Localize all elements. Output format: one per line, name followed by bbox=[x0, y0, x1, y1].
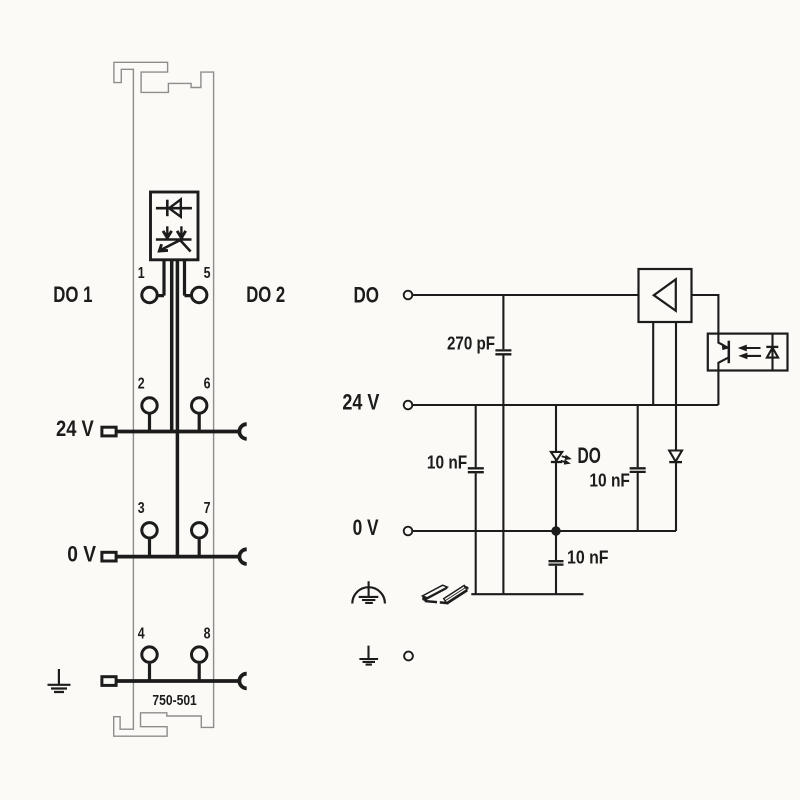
diode D-led1 cathode bar bbox=[166, 200, 169, 217]
LED DO branch bbox=[555, 405, 557, 531]
terminal DO bbox=[404, 291, 413, 300]
svg-text:10 nF: 10 nF bbox=[589, 471, 630, 491]
LED D1 emission arrows bbox=[562, 456, 569, 458]
diode D3 branch bbox=[675, 405, 677, 531]
svg-text:24 V: 24 V bbox=[56, 416, 94, 441]
pin 5 bbox=[192, 287, 207, 302]
capacitor C4 10nF branch bbox=[637, 405, 639, 531]
svg-text:10 nF: 10 nF bbox=[427, 453, 467, 473]
small earth symbol bottom bbox=[359, 646, 378, 665]
earth square connector bbox=[102, 677, 116, 686]
LED indicator box U1 bbox=[151, 192, 199, 260]
driver op-amp box U2 bbox=[639, 269, 692, 322]
wire box to 0V rail bbox=[176, 260, 180, 557]
capacitor C1 plates bbox=[495, 350, 511, 354]
svg-text:750-501: 750-501 bbox=[152, 693, 196, 709]
node DO line bbox=[413, 294, 639, 296]
24V crescent connector bbox=[239, 424, 246, 439]
diagonal line down-right bbox=[180, 240, 191, 252]
node 0V line bbox=[413, 530, 677, 532]
wire box to pin 5 bbox=[185, 260, 191, 296]
earth rail wire bbox=[117, 679, 239, 683]
svg-text:DO 2: DO 2 bbox=[246, 282, 285, 307]
node 24V line bbox=[413, 404, 719, 406]
capacitor C2 10nF branch bbox=[475, 405, 477, 594]
svg-text:DO: DO bbox=[354, 283, 380, 308]
pin 6 stem bbox=[198, 415, 201, 432]
pin 6 bbox=[192, 398, 207, 413]
0V crescent connector bbox=[239, 549, 246, 564]
svg-text:24 V: 24 V bbox=[342, 390, 379, 415]
module 750-501 body outline bbox=[114, 62, 214, 736]
DIN rail icon bbox=[422, 585, 468, 605]
opto diode D2 bbox=[766, 346, 778, 348]
wire driver bottom right to 24V bbox=[675, 322, 677, 405]
svg-text:8: 8 bbox=[204, 624, 211, 642]
24V square connector bbox=[102, 427, 116, 436]
capacitor C3 branch bbox=[555, 531, 557, 594]
terminal 0V bbox=[404, 527, 413, 536]
LED block lower wire bbox=[156, 238, 192, 241]
svg-text:7: 7 bbox=[204, 499, 211, 517]
svg-text:10 nF: 10 nF bbox=[567, 548, 609, 568]
opto transistor Q1 bbox=[728, 341, 731, 364]
wire driver out right bbox=[692, 295, 719, 334]
svg-text:0 V: 0 V bbox=[67, 541, 96, 566]
0V square connector bbox=[102, 552, 116, 561]
arrow into line left bbox=[166, 226, 168, 235]
capacitor C4 plates bbox=[630, 468, 646, 472]
pin 2 stem bbox=[148, 415, 151, 432]
functional earth symbol bbox=[359, 581, 379, 603]
svg-text:6: 6 bbox=[204, 374, 211, 392]
earth crescent connector bbox=[239, 674, 246, 689]
svg-text:5: 5 bbox=[204, 264, 211, 282]
diode D-led1 triangle bbox=[169, 199, 181, 216]
pin 3 stem bbox=[148, 539, 151, 556]
optocoupler box U3 bbox=[708, 334, 788, 371]
capacitor C3 10nF plates bbox=[549, 561, 564, 564]
rail line bbox=[471, 593, 583, 595]
svg-text:DO 1: DO 1 bbox=[53, 282, 92, 307]
24V rail wire bbox=[117, 430, 239, 434]
svg-text:0 V: 0 V bbox=[353, 515, 379, 540]
svg-text:2: 2 bbox=[138, 374, 145, 392]
svg-text:3: 3 bbox=[138, 499, 145, 517]
driver triangle bbox=[654, 279, 676, 311]
pin 4 stem bbox=[148, 664, 151, 681]
terminal 24V bbox=[404, 401, 413, 410]
diode D-led1 wire bbox=[156, 207, 192, 210]
pin 7 bbox=[192, 523, 207, 538]
opto diode wire bbox=[771, 334, 773, 371]
diode D3 bbox=[669, 451, 682, 462]
pin 2 bbox=[142, 398, 157, 413]
wire driver bottom left to 24V bbox=[652, 322, 654, 405]
capacitor C2 plates bbox=[468, 468, 484, 472]
svg-text:4: 4 bbox=[138, 624, 145, 642]
wire box to pin 1 bbox=[158, 260, 164, 296]
pin number labels bbox=[138, 264, 211, 642]
svg-text:DO: DO bbox=[578, 443, 601, 468]
LED D1 bar bbox=[551, 461, 562, 463]
wire box to 24V rail bbox=[170, 260, 174, 432]
0V rail wire bbox=[117, 555, 239, 559]
terminal small bottom bbox=[404, 652, 413, 661]
LED D1 triangle bbox=[551, 452, 562, 461]
svg-text:1: 1 bbox=[138, 264, 145, 282]
pin 1 bbox=[142, 287, 157, 302]
pin 7 stem bbox=[198, 539, 201, 556]
pin 8 stem bbox=[198, 664, 201, 681]
pin 3 bbox=[142, 523, 157, 538]
svg-text:270 pF: 270 pF bbox=[447, 334, 495, 354]
wire opto bottom to 24V bbox=[717, 371, 719, 406]
pin 4 bbox=[142, 647, 157, 662]
junction node dot bbox=[551, 526, 560, 535]
pin 8 bbox=[192, 647, 207, 662]
diagonal arrow down-left bbox=[161, 238, 184, 250]
ground symbol left bbox=[48, 669, 71, 692]
opto light arrows bbox=[744, 347, 761, 349]
arrow into line right bbox=[180, 226, 182, 235]
capacitor C1 270pF branch bbox=[502, 295, 504, 594]
